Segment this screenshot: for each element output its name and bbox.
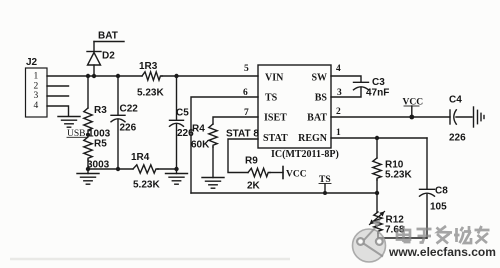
node (VCC/BAT net) (409, 115, 414, 120)
wire STAT (pin8) to R9 (228, 139, 258, 173)
wire rail to C22 (117, 76, 119, 115)
BAT terminal (94, 31, 124, 42)
wire rail to R3 (87, 76, 89, 108)
svg-text:R9: R9 (245, 156, 258, 167)
bottom rail left (88, 168, 133, 170)
resistor R5 (84, 137, 110, 171)
wire R5 to bottom rail (87, 160, 89, 174)
VCC terminal (R9) (283, 167, 307, 180)
wire J2 pin2 stub (47, 85, 69, 87)
svg-text:STAT: STAT (263, 133, 288, 144)
svg-text:VCC: VCC (286, 170, 307, 180)
svg-text:1: 1 (336, 128, 341, 138)
wire J2 pin1 to rail (47, 75, 142, 77)
ground (C5) (166, 174, 188, 185)
wire R9 to VCC bar (270, 172, 283, 174)
node (C22 top) (116, 74, 120, 78)
resistor R4 (191, 124, 217, 151)
wire C5 to bottom rail (176, 124, 178, 174)
connector J2 (26, 57, 48, 117)
svg-text:J2: J2 (26, 57, 38, 68)
ground (J2) (58, 117, 80, 128)
IC U1 MT2011-8P (258, 65, 339, 160)
watermark logo (elecfans) (353, 220, 386, 263)
wire C4 to chassis (456, 116, 472, 118)
wire REGN to C8 (426, 138, 428, 189)
node (R10 top) (375, 136, 379, 140)
node (D2/rail) (92, 74, 96, 78)
wire REGN (pin1) (331, 137, 427, 139)
capacitor C22 (111, 104, 138, 134)
svg-text:60K: 60K (191, 140, 210, 151)
svg-text:1: 1 (34, 72, 39, 82)
node (R3 top) (86, 74, 90, 78)
wire R4 to ground (212, 147, 214, 178)
svg-text:VIN: VIN (265, 73, 284, 84)
wire TS horizontal to R10/R12 (191, 192, 377, 194)
svg-text:BS: BS (315, 93, 328, 104)
USB net label (67, 129, 86, 139)
svg-text:REGN: REGN (298, 133, 328, 144)
node (R5/rail2) (86, 167, 90, 171)
svg-text:C5: C5 (176, 108, 189, 119)
svg-text:STAT 8: STAT 8 (226, 129, 259, 140)
watermark text (Chinese) (397, 226, 490, 244)
node (C22 bottom) (116, 167, 120, 171)
svg-text:4: 4 (336, 64, 341, 74)
svg-text:ISET: ISET (264, 113, 287, 124)
wire BAT net (pin2) (331, 116, 450, 118)
svg-text:2: 2 (336, 107, 341, 117)
wire rail to C5 (176, 76, 178, 120)
node (TS tap) (323, 191, 327, 195)
svg-text:47nF: 47nF (366, 88, 389, 99)
svg-text:226: 226 (120, 123, 137, 134)
resistor 1R3 (137, 61, 164, 99)
svg-text:IC(MT2011-8P): IC(MT2011-8P) (271, 149, 339, 160)
svg-text:www.elecfans.com: www.elecfans.com (388, 245, 496, 259)
VCC terminal (top) (403, 98, 424, 118)
svg-text:1R3: 1R3 (139, 61, 158, 72)
svg-text:SW: SW (311, 73, 327, 84)
svg-text:105: 105 (430, 202, 447, 213)
jpeg artifact line bottom (10, 258, 290, 260)
svg-text:R3: R3 (94, 105, 107, 116)
wire C22 to bottom rail (117, 120, 119, 170)
capacitor C3 (354, 77, 390, 99)
TS terminal (319, 175, 331, 193)
ground (rotated, after C4) (474, 107, 485, 127)
svg-text:C4: C4 (449, 95, 462, 106)
resistor R3 (84, 105, 111, 140)
wire BAT to D2 (93, 42, 95, 52)
svg-text:2K: 2K (247, 181, 261, 192)
svg-text:C8: C8 (435, 186, 448, 197)
capacitor C4 (449, 95, 466, 144)
wire ISET (pin7) to R4 (213, 117, 258, 124)
wire D2 to rail (93, 65, 95, 76)
svg-text:R5: R5 (94, 139, 107, 150)
svg-text:R4: R4 (192, 124, 205, 135)
resistor 1R4 (131, 152, 160, 191)
wire R12 to bottom (378, 233, 427, 238)
svg-text:C3: C3 (372, 77, 385, 88)
svg-text:1R4: 1R4 (131, 152, 150, 163)
svg-text:C22: C22 (120, 104, 139, 115)
svg-text:BAT: BAT (98, 31, 118, 42)
node (C5 top) (174, 74, 178, 78)
wire node to R10 (376, 138, 378, 158)
wire 1R3 to VIN (162, 75, 258, 77)
wire R10 to R12 (376, 180, 378, 212)
svg-text:5.23K: 5.23K (137, 88, 164, 99)
wire J2 pin4 to ground (47, 106, 69, 116)
wire J2 pin3 stub (47, 95, 69, 97)
ground (R4) (202, 178, 224, 189)
svg-text:3: 3 (34, 91, 39, 101)
diode D2 (87, 51, 115, 66)
resistor R10 (373, 158, 413, 181)
node (C5 bottom) (174, 167, 178, 171)
svg-text:4: 4 (34, 101, 39, 111)
bottom rail right (158, 168, 177, 170)
capacitor C8 (420, 186, 449, 213)
node (R3/R5 junction) (86, 133, 90, 137)
svg-text:5.23K: 5.23K (385, 170, 412, 181)
svg-text:D2: D2 (102, 51, 115, 62)
svg-text:2: 2 (34, 81, 39, 91)
wire C8 to bottom (426, 195, 428, 239)
capacitor C5 (170, 108, 195, 139)
wire SW (pin4) to C3 (331, 76, 361, 82)
resistor R12 (thermistor) (370, 212, 405, 236)
svg-text:226: 226 (449, 133, 466, 144)
node (R10/R12/TS) (375, 191, 379, 195)
svg-text:BAT: BAT (307, 113, 327, 124)
svg-text:TS: TS (265, 93, 278, 104)
wire BS (pin3) to C3 (331, 88, 361, 97)
svg-text:5.23K: 5.23K (133, 180, 160, 191)
resistor R9 (245, 156, 270, 192)
ground (R5) (77, 174, 99, 185)
wire TS net (pin6) (191, 97, 258, 193)
svg-text:5: 5 (244, 64, 249, 74)
